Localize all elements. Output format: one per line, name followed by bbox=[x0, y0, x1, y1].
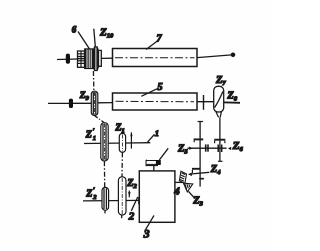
gear Z9 bbox=[91, 91, 98, 115]
gear Z2' bbox=[102, 187, 109, 210]
clutch pair on horizontal shaft bbox=[206, 144, 208, 151]
dash-dot axis below Z10 bbox=[92, 71, 95, 91]
leader for 1 bbox=[147, 134, 155, 143]
leader for Z10 bbox=[94, 29, 96, 47]
box 3 (apron housing) bbox=[139, 171, 175, 222]
svg-text:5: 5 bbox=[157, 82, 162, 93]
svg-text:4: 4 bbox=[173, 186, 180, 198]
bottom tick of right vertical shaft bbox=[218, 160, 223, 162]
arrowhead for Z6 bbox=[228, 147, 231, 151]
svg-text:1: 1 bbox=[93, 135, 96, 142]
roller 7 bbox=[113, 49, 198, 67]
svg-text:Z4: Z4 bbox=[210, 164, 221, 176]
pulley block left section 6 bbox=[78, 51, 85, 67]
wire Z9 to roller 5 bbox=[98, 102, 113, 104]
wire to roller 7 bbox=[102, 57, 113, 59]
pulley Z10 bbox=[93, 47, 98, 71]
shaft 1 bbox=[84, 142, 150, 145]
leader for 3 bbox=[146, 215, 155, 229]
svg-text:6: 6 bbox=[72, 24, 77, 34]
arrowhead for Z5 bbox=[189, 147, 192, 150]
svg-text:1: 1 bbox=[155, 128, 159, 138]
svg-text:Z9: Z9 bbox=[79, 91, 90, 102]
flange bracket right of Z10 bbox=[99, 50, 102, 66]
gear Z1 bbox=[119, 133, 125, 152]
leader from tool-rest element bbox=[159, 148, 168, 160]
roller 5 bbox=[113, 93, 198, 110]
centerline roller 5 bbox=[116, 100, 195, 103]
bevel wheel (hatched) bbox=[184, 183, 193, 192]
gear Z5 bar bbox=[194, 139, 204, 142]
svg-text:Z10: Z10 bbox=[99, 27, 114, 40]
horizontal feed shaft bbox=[188, 147, 227, 149]
svg-text:Z: Z bbox=[85, 189, 92, 200]
centerline roller 7 bbox=[115, 57, 195, 59]
svg-text:2: 2 bbox=[92, 194, 97, 201]
dash-dot axis Z1-Z2 column bbox=[121, 128, 123, 133]
bearing on middle shaft bbox=[69, 99, 73, 108]
dash-dot axis Z9 to Z1' bbox=[95, 116, 104, 123]
leader for 6 bbox=[78, 32, 90, 50]
wire worm output right bbox=[224, 101, 240, 103]
gear Z4 bar bbox=[192, 169, 200, 173]
dash-dot axis Z1'-Z2' column bbox=[103, 161, 105, 187]
clutch pair at right crossing bbox=[218, 145, 222, 153]
gear Z1' bbox=[101, 123, 108, 161]
wire to gear Z9 bbox=[73, 102, 91, 104]
vertical shaft left (Z5/Z4) bbox=[199, 121, 201, 186]
shift arrow at Z1 bbox=[130, 132, 132, 148]
leader for 5 bbox=[141, 89, 157, 97]
shaft 2 bbox=[83, 199, 139, 202]
top tick of left vertical shaft bbox=[198, 121, 203, 123]
leader for Z4 bbox=[191, 172, 210, 174]
wire top input shaft left bbox=[57, 58, 78, 61]
gear Z6 bar bbox=[214, 140, 225, 144]
bearing tick at box wall bbox=[138, 197, 140, 204]
leader for 7 bbox=[146, 41, 157, 49]
svg-text:7: 7 bbox=[156, 33, 162, 44]
wire box to bevel pair bbox=[175, 181, 183, 183]
pulley block middle section bbox=[85, 49, 93, 69]
wire roller7 right shaft bbox=[197, 55, 232, 58]
bearing on input shaft bbox=[66, 54, 70, 64]
wire middle shaft left bbox=[48, 102, 69, 104]
leader for Z3 bbox=[189, 191, 195, 198]
svg-text:Z1: Z1 bbox=[114, 123, 124, 135]
node end circle bbox=[231, 53, 235, 57]
arrowhead for Z4 bbox=[188, 173, 192, 177]
leader for 2 bbox=[131, 197, 138, 211]
vertical shaft right (from worm) bbox=[219, 117, 221, 161]
shift arrow at Z2 bbox=[128, 191, 131, 198]
tool-rest element on box top bbox=[146, 160, 161, 171]
worm Z7 bbox=[214, 86, 224, 117]
svg-text:Z8: Z8 bbox=[226, 91, 237, 103]
svg-text:Z5: Z5 bbox=[177, 143, 188, 155]
svg-text:2: 2 bbox=[128, 211, 135, 223]
bearing tick right of roller 5 bbox=[203, 95, 205, 110]
small bar on shaft below Z4 bbox=[199, 178, 204, 180]
bevel pinion (hatched) bbox=[179, 171, 186, 183]
svg-text:Z7: Z7 bbox=[215, 75, 226, 87]
gear Z2 bbox=[118, 177, 126, 215]
svg-text:Z2: Z2 bbox=[126, 178, 137, 190]
svg-text:Z: Z bbox=[85, 130, 92, 141]
wire roller 5 to worm bbox=[197, 101, 214, 103]
svg-text:Z6: Z6 bbox=[232, 140, 244, 153]
